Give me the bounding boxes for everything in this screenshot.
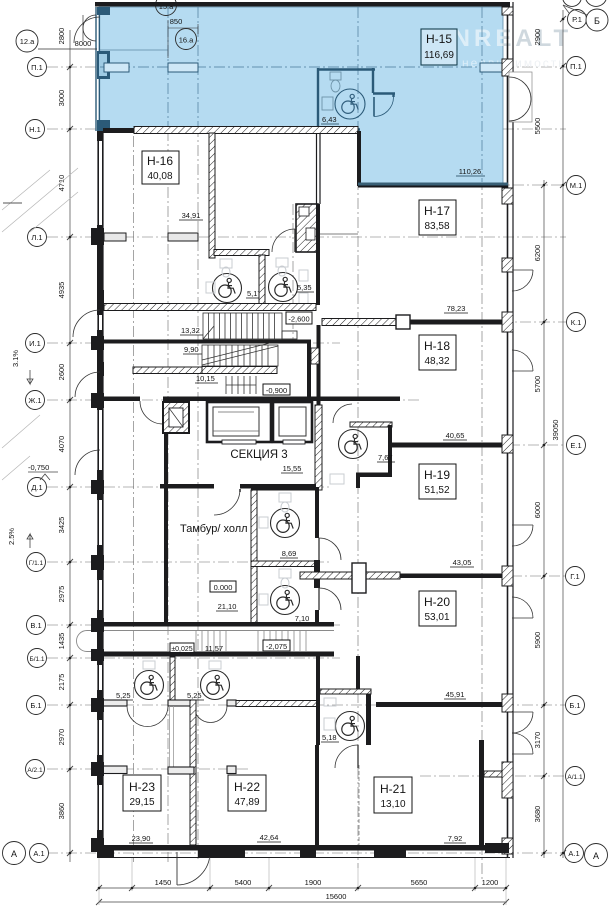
svg-text:4070: 4070 <box>57 436 66 453</box>
faint ramp diagonals top-left <box>2 168 78 480</box>
elevator shaft small <box>163 402 189 433</box>
bathroom 7,67 <box>315 404 392 490</box>
right wall door arcs <box>512 270 533 754</box>
wall x=317 lower (H-22/H-21) <box>315 745 319 845</box>
svg-text:2.5%: 2.5% <box>7 528 16 545</box>
svg-text:Г.1: Г.1 <box>570 572 579 581</box>
svg-text:1435: 1435 <box>57 633 66 650</box>
walls K.1 / E.1 / G.1 rows <box>322 319 400 326</box>
svg-text:5400: 5400 <box>235 878 252 887</box>
svg-text:И.1: И.1 <box>29 339 41 348</box>
wall V.1 <box>96 622 334 627</box>
svg-text:40,65: 40,65 <box>446 431 465 440</box>
svg-text:43,05: 43,05 <box>453 558 472 567</box>
top exterior wall <box>95 2 510 7</box>
svg-text:850: 850 <box>170 17 183 26</box>
A/2.1 stubs <box>103 766 236 774</box>
svg-text:51,52: 51,52 <box>424 485 449 496</box>
svg-text:Б: Б <box>594 16 600 26</box>
svg-text:2600: 2600 <box>57 364 66 381</box>
svg-text:45,91: 45,91 <box>446 690 465 699</box>
svg-text:1900: 1900 <box>305 878 322 887</box>
svg-text:7,10: 7,10 <box>295 614 310 623</box>
svg-text:42,64: 42,64 <box>260 833 279 842</box>
svg-text:5,25: 5,25 <box>116 691 131 700</box>
svg-text:Н-15: Н-15 <box>426 32 452 46</box>
svg-text:А: А <box>11 849 17 859</box>
svg-text:53,01: 53,01 <box>424 612 449 623</box>
elevator 2 <box>273 402 312 444</box>
fixtures H-15 bath <box>322 72 341 110</box>
axis dash lines over blue <box>100 7 502 182</box>
svg-text:А/2.1: А/2.1 <box>27 767 43 774</box>
hall right wall with doors <box>315 487 319 538</box>
bathrooms 8,69 / 7,10 <box>251 490 257 625</box>
svg-text:Н-22: Н-22 <box>234 780 260 794</box>
wheelchair circle H-15 <box>335 89 365 119</box>
svg-text:-0,750: -0,750 <box>28 463 49 472</box>
svg-text:116,69: 116,69 <box>424 50 454 61</box>
dim line node dots <box>69 18 565 890</box>
door opening in hall top wall <box>214 483 240 490</box>
svg-text:15600: 15600 <box>326 892 347 901</box>
svg-text:3170: 3170 <box>533 732 542 749</box>
wall x=357 below G.1 <box>356 656 360 689</box>
svg-text:М.1: М.1 <box>570 181 583 190</box>
wall stubs on axis L.1 <box>104 233 198 241</box>
vertical hatched wall x=209 <box>209 133 215 258</box>
left exterior wall (double line with window strips) <box>98 131 103 858</box>
wc circle 5,35 <box>269 273 298 302</box>
bathrooms 5,25 row <box>170 657 175 702</box>
svg-text:-0,900: -0,900 <box>266 386 287 395</box>
svg-text:8000: 8000 <box>75 39 92 48</box>
svg-text:А: А <box>593 851 599 861</box>
H-21 right wall <box>479 740 484 845</box>
svg-text:Н-17: Н-17 <box>424 204 450 218</box>
wc circle 5,17 <box>213 274 242 303</box>
svg-text:-2,600: -2,600 <box>288 315 309 324</box>
room H-16 label <box>142 151 179 184</box>
svg-text:Р.1: Р.1 <box>572 15 582 24</box>
bathroom door arc H-15 <box>374 97 394 117</box>
left wall exterior door arcs <box>73 17 100 475</box>
svg-text:5650: 5650 <box>411 878 428 887</box>
svg-text:4710: 4710 <box>57 175 66 192</box>
svg-text:Н-21: Н-21 <box>380 782 406 796</box>
svg-text:Г/1.1: Г/1.1 <box>29 560 44 567</box>
axis grid lines horizontal (dash-dot) <box>47 67 566 853</box>
svg-text:6,43: 6,43 <box>322 115 337 124</box>
bathroom 5,18 H-21 <box>316 655 320 745</box>
double door arcs top-left exterior <box>83 15 96 41</box>
svg-text:2975: 2975 <box>57 586 66 603</box>
axis circle 15.a <box>156 0 177 16</box>
watermark ONREALT <box>430 25 572 70</box>
svg-text:8,69: 8,69 <box>282 549 297 558</box>
left wall solid segments <box>97 131 103 858</box>
svg-text:3425: 3425 <box>57 517 66 534</box>
svg-text:К.1: К.1 <box>571 318 582 327</box>
hatched wall between wc <box>259 255 265 305</box>
door arc into corridor <box>272 229 295 252</box>
svg-text:5,18: 5,18 <box>322 733 337 742</box>
wall N.1 hatched band below blue <box>134 127 358 134</box>
svg-text:40,08: 40,08 <box>147 171 172 182</box>
svg-text:Н-20: Н-20 <box>424 595 450 609</box>
bathroom walls x=317 mid <box>316 204 320 305</box>
svg-text:А.1: А.1 <box>568 849 579 858</box>
svg-text:6000: 6000 <box>533 502 542 519</box>
svg-text:16.а: 16.а <box>179 36 194 45</box>
svg-text:Ж.1: Ж.1 <box>28 396 41 405</box>
svg-text:34,91: 34,91 <box>182 211 201 220</box>
wall B.1 segments with door openings <box>103 700 236 706</box>
fixtures above wc circles <box>206 258 308 304</box>
bottom wall window stubs <box>100 843 509 858</box>
svg-text:2970: 2970 <box>57 729 66 746</box>
svg-text:39050: 39050 <box>551 420 560 441</box>
wall Zh.1 <box>103 397 140 402</box>
svg-text:0.000: 0.000 <box>214 583 233 592</box>
svg-text:29,15: 29,15 <box>129 797 154 808</box>
svg-text:Е.1: Е.1 <box>570 441 581 450</box>
svg-text:7,67: 7,67 <box>378 453 393 462</box>
wall I.1 <box>103 340 311 344</box>
svg-text:-2,075: -2,075 <box>266 642 287 651</box>
bottom door arc H-22 entrance <box>177 852 210 885</box>
svg-text:9,90: 9,90 <box>184 345 199 354</box>
svg-text:3860: 3860 <box>57 803 66 820</box>
hatched wall y=250 <box>214 250 269 256</box>
right exterior wall (double line) <box>508 2 514 858</box>
svg-text:2900: 2900 <box>533 29 542 46</box>
thick hatched wall y=304 <box>104 304 316 311</box>
leader lines top-right <box>563 5 587 15</box>
axis circle 16.a <box>176 29 197 50</box>
wall x=317 between K.1 and E.1 <box>317 325 321 405</box>
svg-text:47,89: 47,89 <box>234 797 259 808</box>
canopy stairs <box>196 631 306 652</box>
box -0,900 <box>263 384 290 395</box>
svg-text:Н-16: Н-16 <box>147 154 173 168</box>
svg-text:3000: 3000 <box>57 90 66 107</box>
thin line duct enclosure <box>318 233 358 235</box>
svg-text:Д.1: Д.1 <box>31 483 42 492</box>
svg-text:Б/1.1: Б/1.1 <box>29 656 44 663</box>
svg-text:13,32: 13,32 <box>181 326 200 335</box>
svg-text:4935: 4935 <box>57 282 66 299</box>
svg-text:Н-19: Н-19 <box>424 468 450 482</box>
svg-text:15,55: 15,55 <box>283 464 302 473</box>
svg-text:2175: 2175 <box>57 674 66 691</box>
svg-text:5500: 5500 <box>533 118 542 135</box>
stairs middle flight with arrow <box>202 343 278 366</box>
box 0.000 <box>210 581 236 592</box>
wall between H-23 and H-22 <box>190 700 196 845</box>
svg-text:Б.1: Б.1 <box>569 701 580 710</box>
H-15 label box <box>421 29 457 65</box>
svg-text:110,26: 110,26 <box>459 167 481 176</box>
svg-text:3680: 3680 <box>533 806 542 823</box>
right wall pilasters hatched <box>502 7 513 854</box>
left wall pilasters <box>91 228 104 852</box>
svg-text:±0,025: ±0,025 <box>171 646 192 653</box>
light partition H-21 left <box>358 765 360 845</box>
svg-text:7,92: 7,92 <box>448 834 463 843</box>
stairs lower flight <box>226 376 256 394</box>
svg-text:21,10: 21,10 <box>218 602 237 611</box>
wall stubs on axis P.1 inside blue <box>104 63 503 72</box>
room labels H-17..H-23 <box>123 200 474 843</box>
svg-text:5,25: 5,25 <box>187 691 202 700</box>
svg-text:Тамбур/ холл: Тамбур/ холл <box>180 523 248 535</box>
svg-text:11,57: 11,57 <box>205 644 223 653</box>
stair right wall <box>307 343 311 402</box>
svg-text:13,10: 13,10 <box>380 799 405 810</box>
svg-text:6200: 6200 <box>533 245 542 262</box>
svg-text:83,58: 83,58 <box>424 221 449 232</box>
svg-text:5900: 5900 <box>533 632 542 649</box>
hatched band below mid flight <box>202 367 277 374</box>
svg-text:2800: 2800 <box>57 28 66 45</box>
light partition in H-23 <box>170 706 174 770</box>
svg-text:48,32: 48,32 <box>424 356 449 367</box>
svg-text:В.1: В.1 <box>30 621 41 630</box>
duct shaft box <box>296 204 318 252</box>
wall x=317 upper <box>317 133 321 204</box>
svg-text:П.1: П.1 <box>570 62 582 71</box>
canopy strip <box>77 631 335 652</box>
extension lines bottom <box>99 858 506 905</box>
elevator 1 <box>207 402 271 444</box>
svg-text:П.1: П.1 <box>31 63 43 72</box>
svg-text:1450: 1450 <box>155 878 172 887</box>
svg-text:10,15: 10,15 <box>196 374 215 383</box>
svg-text:Н-23: Н-23 <box>129 780 155 794</box>
svg-text:Н.1: Н.1 <box>29 125 41 134</box>
wall B/1.1 <box>96 652 334 657</box>
svg-text:1200: 1200 <box>482 878 499 887</box>
bottom exterior wall <box>100 845 510 851</box>
blue pilasters top-left <box>97 7 110 132</box>
door arcs below B.1 wall <box>127 706 227 727</box>
svg-text:СЕКЦИЯ 3: СЕКЦИЯ 3 <box>230 449 287 461</box>
left exterior wall blue segment <box>96 7 100 131</box>
hall tambour walls <box>164 433 168 625</box>
svg-text:А/1.1: А/1.1 <box>567 774 583 781</box>
svg-text:12.а: 12.а <box>20 37 35 46</box>
box -2,600 <box>286 312 312 324</box>
box 0,025 / 11,57 / -2,075 <box>170 643 194 653</box>
svg-text:23,90: 23,90 <box>132 834 151 843</box>
room H-15 blue area <box>99 7 503 184</box>
svg-text:Б.1: Б.1 <box>30 701 41 710</box>
door arc Zh.1 <box>140 401 163 424</box>
wall M.1 bottom of blue right part <box>358 183 508 186</box>
svg-text:5700: 5700 <box>533 376 542 393</box>
svg-text:Н-18: Н-18 <box>424 339 450 353</box>
wall between H-16 and lower blue <box>357 131 361 186</box>
svg-text:А.1: А.1 <box>33 849 44 858</box>
top right double door <box>509 72 532 122</box>
bathroom in H-15 <box>317 68 395 131</box>
svg-text:5,35: 5,35 <box>297 283 312 292</box>
svg-text:Л.1: Л.1 <box>31 233 42 242</box>
stairs upper flight <box>203 313 282 339</box>
svg-text:3.1%: 3.1% <box>11 350 20 367</box>
axis grid lines vertical <box>134 8 483 880</box>
svg-text:78,23: 78,23 <box>447 304 466 313</box>
